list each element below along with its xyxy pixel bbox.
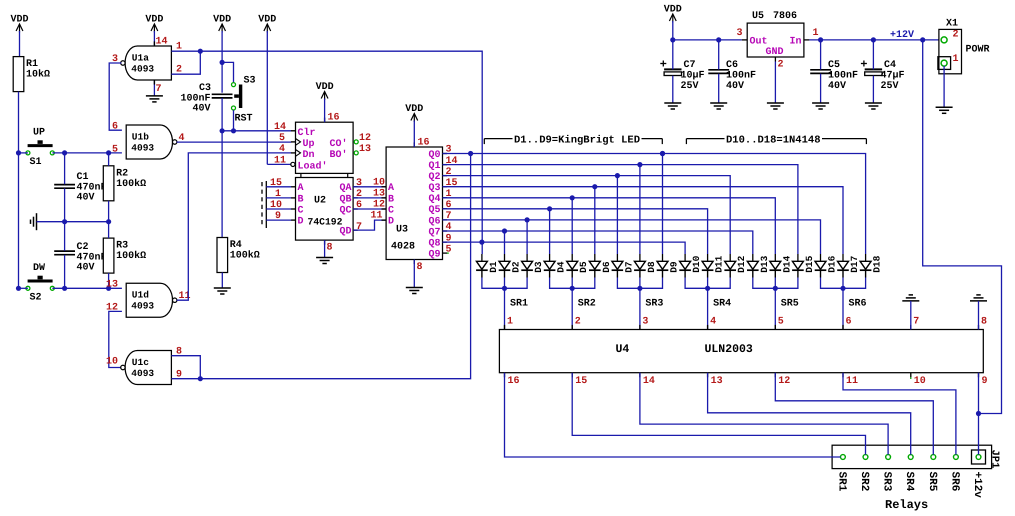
label SR5 under JP1 xyxy=(926,472,938,492)
wire drop to D3 xyxy=(526,220,528,254)
resistor R3 xyxy=(103,238,146,273)
node SR2 label xyxy=(575,299,596,328)
node SR1 label xyxy=(507,299,528,328)
svg-text:16: 16 xyxy=(328,113,340,124)
svg-text:D2: D2 xyxy=(511,261,522,273)
U2 input strap bracket xyxy=(262,181,266,228)
label SR6 under JP1 xyxy=(948,472,960,492)
svg-text:8: 8 xyxy=(981,317,987,328)
junction S2 node R3 xyxy=(106,286,111,291)
wire C5 to ground xyxy=(820,74,822,103)
svg-text:U2: U2 xyxy=(314,196,326,207)
svg-text:R2: R2 xyxy=(116,168,128,179)
svg-text:D14: D14 xyxy=(781,255,792,272)
wire drop to D7 xyxy=(616,176,618,254)
svg-text:12: 12 xyxy=(778,376,790,387)
diode D12 xyxy=(724,254,747,278)
svg-text:Up: Up xyxy=(303,139,315,150)
diode D16 xyxy=(815,254,838,278)
wire rail to S2 left pin xyxy=(19,287,28,289)
svg-text:8: 8 xyxy=(327,243,333,254)
svg-text:B: B xyxy=(298,194,304,205)
vdd symbol VDD4 (U2 Load) xyxy=(258,15,276,165)
wire SR2 to U4 pin2 xyxy=(571,288,573,329)
wire C3 to Clr row xyxy=(221,98,223,131)
svg-text:2: 2 xyxy=(575,317,581,328)
svg-text:SR5: SR5 xyxy=(926,472,938,492)
svg-text:C3: C3 xyxy=(199,83,211,94)
wire VDD rail to U5 Out xyxy=(673,39,742,41)
svg-text:7: 7 xyxy=(913,317,919,328)
label SR3 under JP1 xyxy=(881,472,893,492)
label bracket D1..D9 xyxy=(484,134,662,146)
svg-text:10µF: 10µF xyxy=(681,71,705,82)
wire drop to D5 xyxy=(571,198,573,254)
label SR2 under JP1 xyxy=(858,472,870,492)
svg-text:D10..D18=1N4148: D10..D18=1N4148 xyxy=(726,134,821,146)
ground below U3 pin8 xyxy=(406,260,423,294)
svg-text:A: A xyxy=(298,183,304,194)
ground below C7 xyxy=(664,103,681,109)
svg-text:SR4: SR4 xyxy=(713,299,731,310)
svg-text:Q5: Q5 xyxy=(428,205,440,216)
svg-text:74C192: 74C192 xyxy=(308,217,343,228)
wire SR5 to U4 pin5 xyxy=(774,288,776,329)
svg-text:Clr: Clr xyxy=(298,127,316,139)
svg-text:40V: 40V xyxy=(828,81,846,92)
decoder U3 4028 xyxy=(371,138,458,274)
wire SR6 to U4 pin6 xyxy=(842,288,844,329)
svg-text:10: 10 xyxy=(914,376,926,387)
wire net Q6 bus xyxy=(443,220,821,254)
U4 pin stubs xyxy=(505,325,979,377)
op-amp U1a (NAND 4093) xyxy=(112,37,182,96)
wire U5 GND down xyxy=(774,62,776,104)
switch S2 (DW button) xyxy=(26,263,54,304)
wire U1c output to U1d pin12 xyxy=(109,311,122,367)
svg-text:40V: 40V xyxy=(77,193,95,204)
junction S1 node R2 xyxy=(106,150,111,155)
svg-text:R3: R3 xyxy=(116,241,128,252)
wire U1a pins to Q8/D1 xyxy=(200,51,482,254)
svg-text:1: 1 xyxy=(953,54,959,65)
junction S1 node C1 xyxy=(62,150,67,155)
svg-text:Out: Out xyxy=(750,36,768,47)
svg-text:100kΩ: 100kΩ xyxy=(116,250,146,262)
wire U4 pin15 to JP1 SR2 xyxy=(572,373,865,455)
resistor R1 xyxy=(13,57,50,92)
wire U2 B input xyxy=(266,197,291,199)
diode D14 xyxy=(770,254,793,278)
svg-text:D12: D12 xyxy=(736,255,747,272)
junction Q2-D7 xyxy=(615,173,620,178)
vdd symbol above U2 xyxy=(316,82,334,122)
wire C5 top xyxy=(820,40,822,70)
junction Q3-D6 xyxy=(592,184,597,189)
junction rail C5 xyxy=(818,37,823,42)
wire U2 QA to U3 A xyxy=(353,186,386,188)
svg-text:Load': Load' xyxy=(298,160,328,172)
wire SR3 group join xyxy=(617,278,662,289)
svg-text:9: 9 xyxy=(982,376,988,387)
diode D18 xyxy=(860,254,883,278)
vdd symbol above U1a pin14 xyxy=(145,15,163,47)
node SR5 label xyxy=(778,299,799,328)
wire net Q8 bus xyxy=(443,242,686,254)
wire SR5 group join xyxy=(753,278,798,289)
junction U1a pin1 node xyxy=(198,49,203,54)
wire S1 right pin to node xyxy=(52,152,122,154)
driver U4 ULN2003 xyxy=(499,317,987,388)
svg-text:DW: DW xyxy=(33,263,45,274)
svg-text:BO': BO' xyxy=(329,149,347,161)
diode D13 xyxy=(747,254,770,278)
regulator U5 7806 xyxy=(737,11,819,71)
junction rail-S2 xyxy=(16,286,21,291)
wire S2 right pin to U1d pin13 xyxy=(52,287,122,289)
svg-text:D15: D15 xyxy=(804,255,815,272)
svg-text:8: 8 xyxy=(417,262,423,273)
svg-text:4093: 4093 xyxy=(131,143,154,154)
svg-text:U3: U3 xyxy=(396,225,408,236)
junction SR6 xyxy=(840,286,845,291)
junction SR5 xyxy=(773,286,778,291)
svg-text:S3: S3 xyxy=(244,76,256,87)
capacitor C1 xyxy=(54,172,106,204)
svg-text:A: A xyxy=(388,183,394,194)
ground below C6 xyxy=(710,103,727,109)
junction SR3 xyxy=(637,286,642,291)
switch S3 (RST button) xyxy=(232,76,256,125)
svg-text:25V: 25V xyxy=(681,81,699,92)
wire net Q0 bus xyxy=(443,154,866,255)
svg-text:4093: 4093 xyxy=(131,64,154,75)
ground below C4 xyxy=(865,103,882,109)
label bracket D10..D18 xyxy=(686,134,866,146)
svg-text:14: 14 xyxy=(156,37,168,48)
connector X1 POWR xyxy=(938,19,990,74)
wire U2 QD to U3 D xyxy=(353,220,386,230)
U2 pin stubs xyxy=(291,118,358,245)
capacitor C2 xyxy=(54,242,106,274)
svg-text:U1a: U1a xyxy=(132,53,149,64)
junction ground row R2/R3 xyxy=(106,219,111,224)
op-amp U1b (NAND 4093) xyxy=(112,122,185,160)
junction Q0-D9 xyxy=(660,151,665,156)
wire VDD4 to U2 Load pin xyxy=(267,163,290,165)
junction U1c pins tie xyxy=(198,376,203,381)
svg-text:100kΩ: 100kΩ xyxy=(230,250,260,262)
wire net Q3 bus xyxy=(443,187,844,254)
counter U2 74C192 (lower section) xyxy=(270,178,362,254)
junction Q5-D4 xyxy=(547,206,552,211)
wire C6 top xyxy=(718,40,720,70)
wire net Q7 bus xyxy=(443,231,753,254)
junction ground row C1 xyxy=(62,219,67,224)
svg-text:C2: C2 xyxy=(77,242,89,253)
wire net Q2 bus xyxy=(443,176,731,254)
wire U2 QB to U3 B xyxy=(353,197,386,199)
svg-text:Q6: Q6 xyxy=(428,216,440,227)
ground at U1a pin7 xyxy=(146,41,163,102)
wire U4 pin16 to JP1 SR1 xyxy=(505,373,841,457)
label SR1 under JP1 xyxy=(835,472,847,492)
svg-text:In: In xyxy=(789,36,801,47)
junction SR1 xyxy=(502,286,507,291)
wire U2 A input xyxy=(266,186,291,188)
diode D11 xyxy=(702,254,725,278)
op-amp U1c (NAND 4093) xyxy=(106,347,182,385)
wire Clr row (RST net) xyxy=(222,130,291,132)
svg-text:S1: S1 xyxy=(30,157,42,168)
svg-text:100nF: 100nF xyxy=(828,71,858,82)
diode D8 xyxy=(634,254,657,278)
ground symbol (C1/C2 mid row) xyxy=(31,213,37,230)
label +12v under JP1 xyxy=(971,472,983,499)
svg-text:SR6: SR6 xyxy=(849,299,867,310)
wire U4 pin9 to +12V node xyxy=(978,373,980,455)
wire net Q5 bus xyxy=(443,209,708,254)
wire ground row to R3 xyxy=(108,222,110,238)
wire U1c pin9 to Q0 feedback xyxy=(171,154,470,379)
capacitor C4 (47uF) xyxy=(861,60,905,92)
svg-text:5: 5 xyxy=(778,317,784,328)
wire U4 pin13 to JP1 SR4 xyxy=(708,373,911,455)
svg-text:15: 15 xyxy=(575,376,587,387)
svg-text:X1: X1 xyxy=(946,19,958,30)
wire U1d output to U2 Dn xyxy=(177,153,292,300)
vdd symbol (7806 out) xyxy=(664,5,682,40)
ground below U5 xyxy=(767,103,784,109)
ground above U4 pin8 xyxy=(970,295,987,330)
svg-text:QB: QB xyxy=(339,194,351,205)
wire R3 to S2 node xyxy=(108,273,110,288)
svg-text:QD: QD xyxy=(339,227,351,238)
wire C4 top xyxy=(872,40,874,70)
junction Q8-D1 xyxy=(479,240,484,245)
ground above U4 pin7 xyxy=(902,295,919,330)
junction rail-S1 xyxy=(16,150,21,155)
junction S3-Clr xyxy=(231,128,236,133)
svg-text:GND: GND xyxy=(766,47,784,58)
svg-text:D1..D9=KingBrigt LED: D1..D9=KingBrigt LED xyxy=(514,134,640,146)
junction Q0-D9 xyxy=(660,151,665,156)
junction Q0-U1c feedback xyxy=(468,151,473,156)
svg-text:D6: D6 xyxy=(601,261,612,273)
svg-text:JP1: JP1 xyxy=(989,450,1001,469)
wire rail to S1 left pin xyxy=(19,152,28,154)
svg-text:25V: 25V xyxy=(881,81,899,92)
svg-text:S2: S2 xyxy=(30,293,42,304)
node SR6 label xyxy=(846,299,867,328)
svg-text:U4: U4 xyxy=(616,343,630,356)
svg-text:RST: RST xyxy=(235,114,253,125)
svg-text:+12V: +12V xyxy=(890,30,914,41)
svg-text:4: 4 xyxy=(279,144,285,155)
U2 section link xyxy=(301,173,348,177)
resistor R4 xyxy=(217,238,260,273)
diode D5 xyxy=(566,254,589,278)
svg-text:5: 5 xyxy=(279,133,285,144)
wire +12V riser xyxy=(923,40,1002,414)
svg-text:11: 11 xyxy=(371,211,383,222)
svg-text:SR2: SR2 xyxy=(578,299,596,310)
connector JP1 xyxy=(832,445,992,468)
junction S2 node C2 xyxy=(62,286,67,291)
wire drop to D2 xyxy=(504,231,506,254)
svg-text:D4: D4 xyxy=(556,261,567,273)
U3 pin stubs xyxy=(382,142,448,264)
svg-text:11: 11 xyxy=(274,156,286,167)
svg-text:R4: R4 xyxy=(230,240,242,251)
svg-text:1: 1 xyxy=(813,28,819,39)
svg-text:10kΩ: 10kΩ xyxy=(26,69,50,81)
svg-text:13: 13 xyxy=(711,376,723,387)
junction rail C4 xyxy=(871,37,876,42)
wire drop to D4 xyxy=(549,209,551,254)
wire S1 node to C1 xyxy=(64,153,66,184)
wire S3 to Clr row xyxy=(233,110,235,131)
wire SR6 group join xyxy=(821,278,866,289)
ground below U2 pin8 xyxy=(316,240,333,263)
svg-text:40V: 40V xyxy=(726,81,744,92)
svg-text:Q3: Q3 xyxy=(428,183,440,194)
svg-text:SR3: SR3 xyxy=(645,299,663,310)
junction VDD-S3 branch xyxy=(220,60,225,65)
wire C6 to ground xyxy=(718,74,720,103)
diode D1 xyxy=(476,254,499,278)
wire C7 to ground xyxy=(672,76,674,103)
svg-text:40V: 40V xyxy=(77,263,95,274)
svg-text:U1d: U1d xyxy=(132,290,149,301)
svg-text:D: D xyxy=(298,217,304,228)
svg-text:3: 3 xyxy=(737,28,743,39)
diode D7 xyxy=(612,254,635,278)
svg-text:D3: D3 xyxy=(533,261,544,273)
svg-text:47µF: 47µF xyxy=(881,71,905,82)
svg-text:6: 6 xyxy=(846,317,852,328)
svg-text:Q0: Q0 xyxy=(428,150,440,161)
svg-text:SR1: SR1 xyxy=(835,472,847,492)
svg-text:D11: D11 xyxy=(714,255,725,272)
wire U4 pin12 to JP1 SR5 xyxy=(775,373,933,455)
svg-text:40V: 40V xyxy=(192,104,210,115)
svg-text:11: 11 xyxy=(846,376,858,387)
svg-text:+12v: +12v xyxy=(971,472,983,499)
svg-text:Relays: Relays xyxy=(885,498,928,512)
svg-text:D8: D8 xyxy=(646,261,657,273)
svg-text:POWR: POWR xyxy=(966,45,990,56)
ground below C5 xyxy=(812,103,829,109)
svg-text:7806: 7806 xyxy=(773,11,797,22)
wire R2 to ground row xyxy=(108,201,110,222)
svg-text:SR1: SR1 xyxy=(510,299,528,310)
svg-text:Q8: Q8 xyxy=(428,239,440,250)
wire Clr net to R4 xyxy=(221,131,223,238)
svg-text:C5: C5 xyxy=(828,60,840,71)
junction Q7-D2 xyxy=(502,228,507,233)
svg-text:C: C xyxy=(298,205,304,216)
wire U1c pins 8-9 tie xyxy=(171,356,200,379)
svg-text:2: 2 xyxy=(778,60,784,71)
svg-text:U5: U5 xyxy=(752,11,764,22)
wire U5 In to X1 xyxy=(809,39,941,41)
junction +12V at pin9 xyxy=(976,411,981,416)
junction Q6-D3 xyxy=(525,217,530,222)
svg-text:10: 10 xyxy=(106,357,118,368)
label JP1 xyxy=(989,450,1001,469)
svg-text:100kΩ: 100kΩ xyxy=(116,178,146,190)
svg-text:D10: D10 xyxy=(691,255,702,272)
svg-text:Q1: Q1 xyxy=(428,161,440,172)
svg-text:SR6: SR6 xyxy=(948,472,960,492)
wire SR2 group join xyxy=(550,278,595,289)
counter U2 74C192 (upper section) xyxy=(274,113,371,174)
svg-text:U1b: U1b xyxy=(132,132,149,143)
wire U2 D input xyxy=(266,219,291,221)
ground below X1 xyxy=(936,107,953,113)
svg-text:Q4: Q4 xyxy=(428,194,440,205)
wire U1b output to U2 Up xyxy=(177,141,292,143)
junction C3-Clr xyxy=(220,128,225,133)
op-amp U1d (NAND 4093) xyxy=(106,280,191,318)
svg-text:UP: UP xyxy=(33,128,45,139)
svg-text:C1: C1 xyxy=(77,172,89,183)
wire ground row to C2 xyxy=(64,222,66,251)
wire U1a output to U1b pin6 xyxy=(109,63,122,130)
junction rail +12V riser xyxy=(920,37,925,42)
wire C4 to ground xyxy=(872,76,874,103)
svg-text:7: 7 xyxy=(356,222,362,233)
capacitor C5 (100nF) xyxy=(810,60,858,92)
diode D6 xyxy=(589,254,612,278)
vdd symbol VDD3 (above C3) xyxy=(213,15,231,93)
svg-text:C7: C7 xyxy=(684,60,696,71)
wire R1 bottom to S1/S2 rail xyxy=(18,92,20,289)
svg-text:CO': CO' xyxy=(329,138,347,150)
node SR4 label xyxy=(710,299,731,328)
svg-text:Q2: Q2 xyxy=(428,172,440,183)
power rail VDD symbol (top left) xyxy=(10,15,28,57)
node SR3 label xyxy=(642,299,663,328)
svg-text:B: B xyxy=(388,194,394,205)
wire U2 C input xyxy=(266,208,291,210)
svg-text:SR4: SR4 xyxy=(903,472,915,492)
junction Q4-D5 xyxy=(570,195,575,200)
wire U4 pin14 to JP1 SR3 xyxy=(640,373,888,455)
wire S3 branch xyxy=(222,62,233,82)
junction SR4 xyxy=(705,286,710,291)
wire drop to D6 xyxy=(594,187,596,254)
svg-text:12: 12 xyxy=(359,133,371,144)
wire S1 node to R2 xyxy=(108,153,110,166)
wire SR1 to U4 pin1 xyxy=(504,288,506,329)
svg-text:2: 2 xyxy=(953,30,959,41)
svg-text:Q9: Q9 xyxy=(428,250,440,261)
svg-text:13: 13 xyxy=(359,144,371,155)
diode D2 xyxy=(499,254,522,278)
wire C2 to S2 node xyxy=(64,255,66,288)
svg-text:100nF: 100nF xyxy=(726,71,756,82)
switch S1 (UP button) xyxy=(26,128,54,169)
wire SR4 group join xyxy=(685,278,730,289)
svg-text:R1: R1 xyxy=(26,59,38,70)
capacitor C3 xyxy=(180,83,232,115)
diode D3 xyxy=(521,254,544,278)
svg-text:7: 7 xyxy=(156,84,162,95)
svg-text:4093: 4093 xyxy=(131,368,154,379)
svg-text:5: 5 xyxy=(112,145,118,156)
